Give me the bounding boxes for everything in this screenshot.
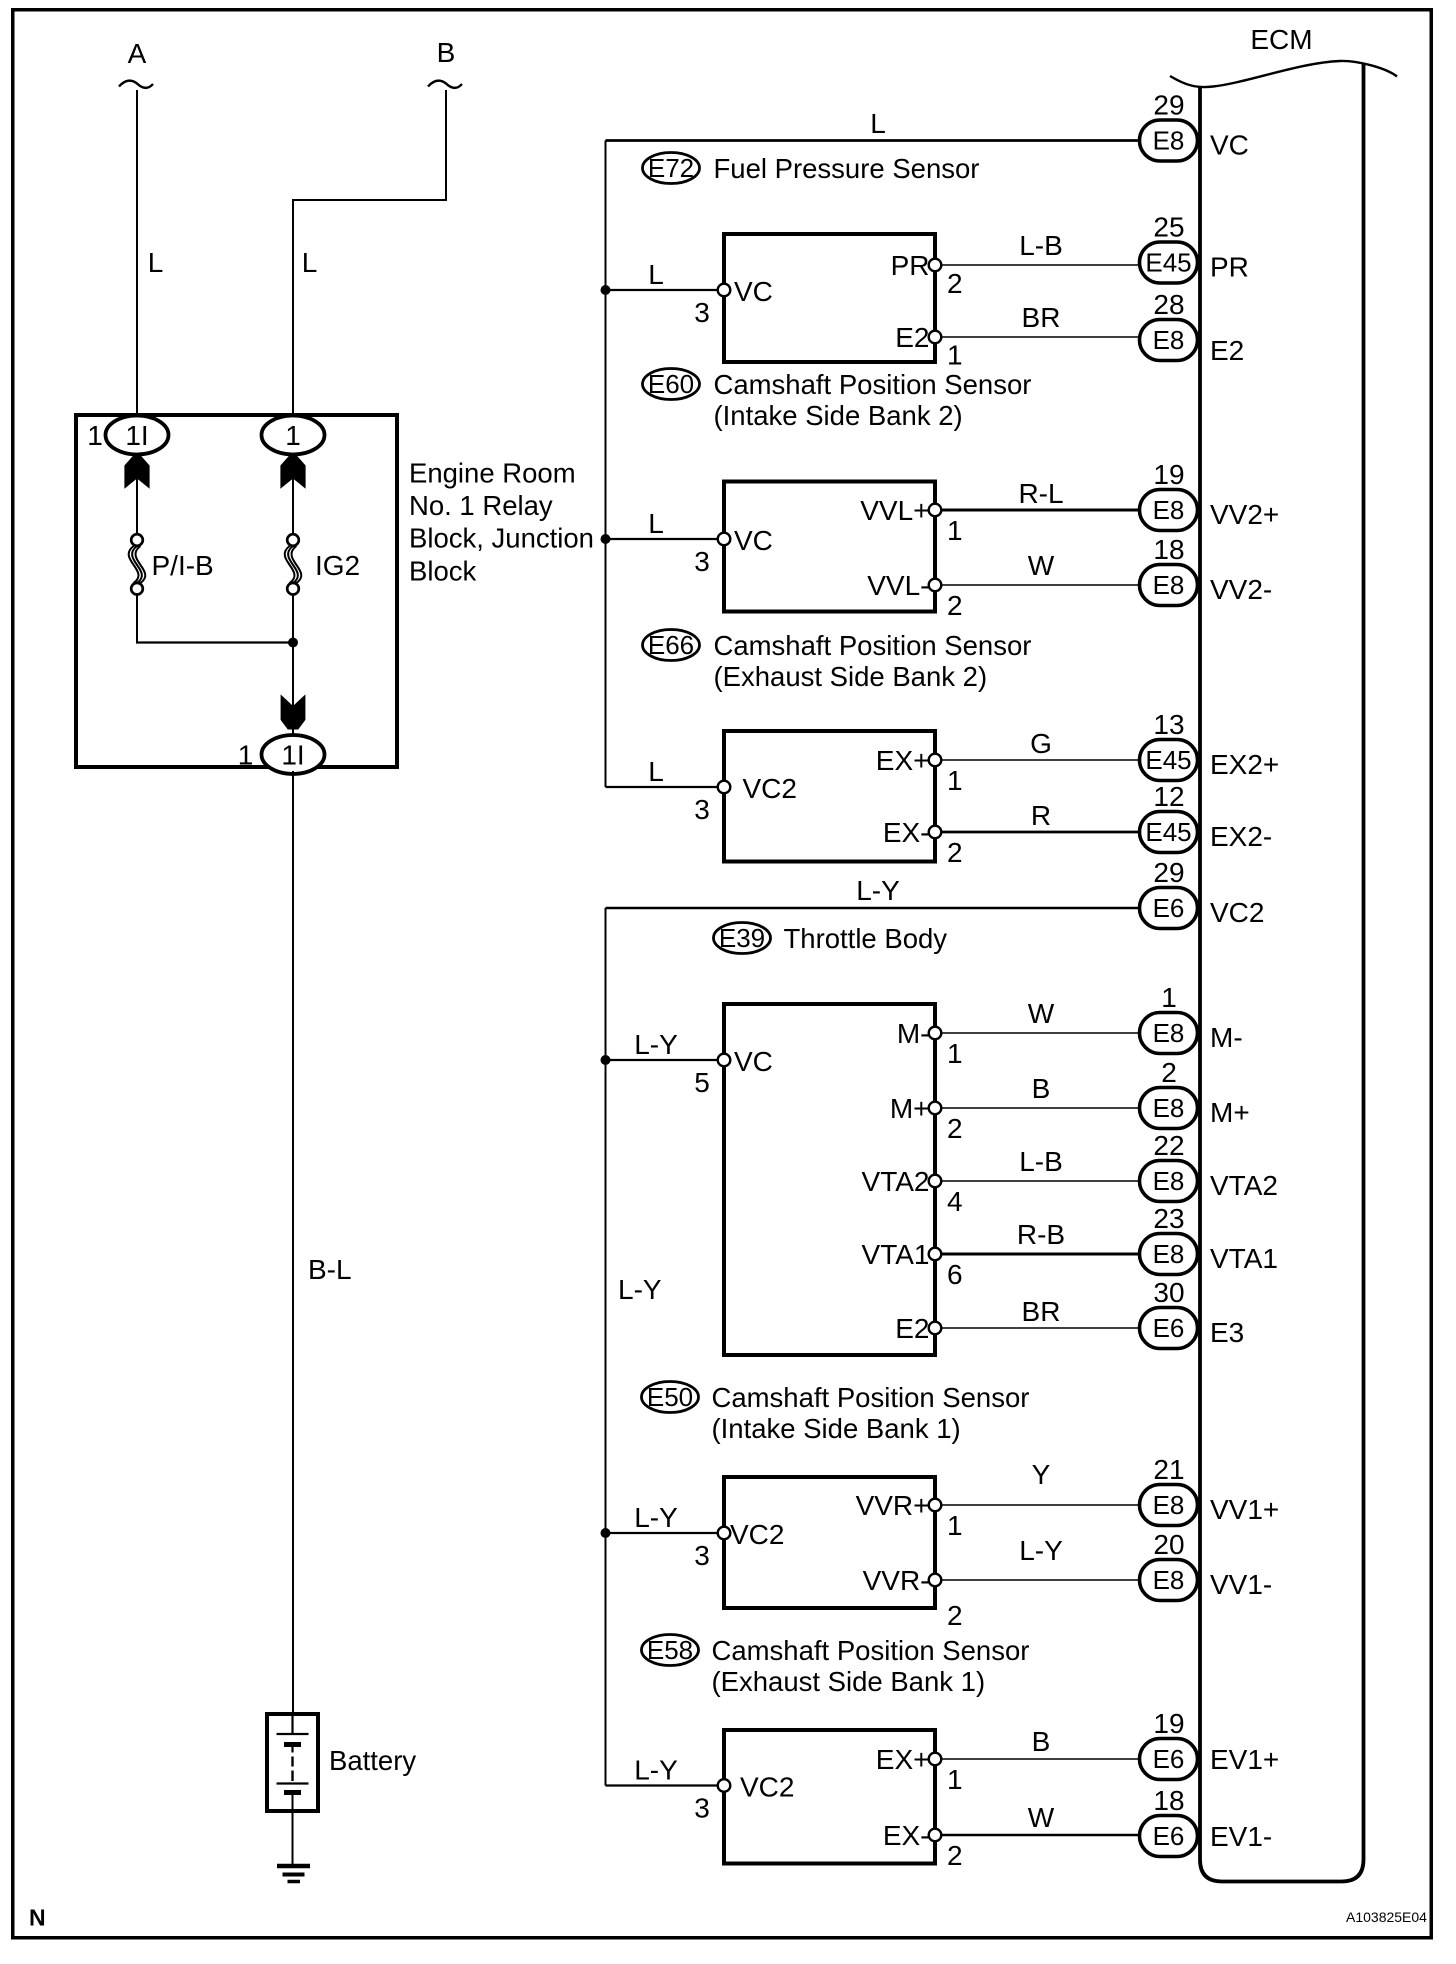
svg-text:E2: E2 [895, 1313, 929, 1344]
svg-text:3: 3 [694, 1792, 710, 1823]
svg-text:1: 1 [238, 739, 254, 770]
svg-text:EV1+: EV1+ [1210, 1744, 1279, 1775]
svg-text:EX+: EX+ [876, 1744, 930, 1775]
svg-text:W: W [1028, 550, 1055, 581]
svg-text:Block: Block [409, 555, 476, 586]
svg-text:PR: PR [891, 250, 930, 281]
svg-text:L-Y: L-Y [618, 1274, 662, 1305]
svg-text:5: 5 [694, 1067, 710, 1098]
svg-text:M+: M+ [1210, 1097, 1250, 1128]
svg-text:18: 18 [1153, 534, 1184, 565]
svg-text:L-Y: L-Y [634, 1502, 678, 1533]
svg-text:VC2: VC2 [730, 1519, 784, 1550]
svg-text:No. 1 Relay: No. 1 Relay [409, 490, 553, 521]
svg-text:E60: E60 [648, 369, 694, 399]
svg-text:E6: E6 [1153, 1744, 1185, 1774]
svg-text:Camshaft Position Sensor: Camshaft Position Sensor [714, 630, 1032, 661]
svg-text:E8: E8 [1153, 126, 1185, 156]
svg-text:25: 25 [1153, 211, 1184, 242]
svg-text:2: 2 [1161, 1057, 1177, 1088]
svg-text:A103825E04: A103825E04 [1346, 1909, 1427, 1925]
svg-text:EX-: EX- [883, 817, 930, 848]
svg-text:VVL-: VVL- [867, 570, 929, 601]
svg-text:(Exhaust Side Bank 1): (Exhaust Side Bank 1) [712, 1666, 986, 1697]
svg-text:E45: E45 [1145, 745, 1191, 775]
svg-text:L-B: L-B [1019, 1146, 1063, 1177]
svg-text:6: 6 [947, 1259, 963, 1290]
svg-text:E6: E6 [1153, 1821, 1185, 1851]
svg-text:B: B [437, 37, 456, 68]
svg-text:23: 23 [1153, 1203, 1184, 1234]
svg-text:L-B: L-B [1019, 230, 1063, 261]
svg-text:E8: E8 [1153, 570, 1185, 600]
svg-text:22: 22 [1153, 1130, 1184, 1161]
svg-text:VTA1: VTA1 [1210, 1243, 1278, 1274]
svg-text:2: 2 [947, 590, 963, 621]
svg-text:VC2: VC2 [740, 1771, 794, 1802]
svg-text:A: A [128, 38, 147, 69]
svg-text:1: 1 [947, 1764, 963, 1795]
svg-text:VV2+: VV2+ [1210, 499, 1279, 530]
svg-text:2: 2 [947, 1113, 963, 1144]
svg-text:E2: E2 [1210, 335, 1244, 366]
svg-text:L: L [648, 508, 664, 539]
svg-text:E8: E8 [1153, 325, 1185, 355]
svg-text:VTA2: VTA2 [1210, 1170, 1278, 1201]
svg-text:B-L: B-L [308, 1254, 352, 1285]
svg-text:1: 1 [947, 515, 963, 546]
svg-text:30: 30 [1153, 1277, 1184, 1308]
svg-text:VC: VC [734, 1046, 773, 1077]
svg-text:Camshaft Position Sensor: Camshaft Position Sensor [712, 1382, 1030, 1413]
svg-text:4: 4 [947, 1186, 963, 1217]
svg-text:VC: VC [734, 525, 773, 556]
svg-text:E8: E8 [1153, 1093, 1185, 1123]
svg-text:P/I-B: P/I-B [152, 550, 214, 581]
svg-text:EV1-: EV1- [1210, 1821, 1272, 1852]
svg-text:ECM: ECM [1250, 24, 1312, 55]
svg-text:21: 21 [1153, 1454, 1184, 1485]
svg-text:EX+: EX+ [876, 745, 930, 776]
svg-text:1: 1 [285, 420, 301, 451]
svg-text:VVR-: VVR- [863, 1565, 930, 1596]
svg-text:EX2+: EX2+ [1210, 749, 1279, 780]
svg-text:PR: PR [1210, 251, 1249, 282]
svg-text:E50: E50 [647, 1382, 693, 1412]
svg-text:E2: E2 [895, 322, 929, 353]
svg-text:VC2: VC2 [743, 773, 797, 804]
svg-text:29: 29 [1153, 857, 1184, 888]
svg-text:VTA2: VTA2 [862, 1166, 930, 1197]
svg-text:L-Y: L-Y [1019, 1535, 1063, 1566]
svg-text:L-Y: L-Y [634, 1029, 678, 1060]
svg-text:19: 19 [1153, 1708, 1184, 1739]
svg-text:VTA1: VTA1 [862, 1239, 930, 1270]
svg-text:Battery: Battery [329, 1745, 416, 1776]
svg-text:Fuel Pressure Sensor: Fuel Pressure Sensor [714, 153, 980, 184]
svg-text:L-Y: L-Y [634, 1754, 678, 1785]
svg-text:VV1-: VV1- [1210, 1569, 1272, 1600]
svg-text:18: 18 [1153, 1785, 1184, 1816]
svg-text:M-: M- [1210, 1022, 1243, 1053]
svg-text:E72: E72 [648, 153, 694, 183]
svg-text:E8: E8 [1153, 1239, 1185, 1269]
svg-text:Camshaft Position Sensor: Camshaft Position Sensor [714, 369, 1032, 400]
svg-text:EX2-: EX2- [1210, 821, 1272, 852]
svg-text:M+: M+ [890, 1093, 930, 1124]
svg-text:E3: E3 [1210, 1317, 1244, 1348]
svg-text:Block, Junction: Block, Junction [409, 523, 594, 554]
svg-text:VC: VC [734, 276, 773, 307]
svg-text:L: L [648, 259, 664, 290]
svg-text:E39: E39 [719, 923, 765, 953]
svg-text:E6: E6 [1153, 893, 1185, 923]
svg-text:3: 3 [694, 546, 710, 577]
svg-text:1I: 1I [125, 420, 148, 451]
svg-text:19: 19 [1153, 459, 1184, 490]
svg-text:R-L: R-L [1018, 478, 1063, 509]
svg-text:12: 12 [1153, 781, 1184, 812]
svg-text:2: 2 [947, 837, 963, 868]
svg-text:2: 2 [947, 268, 963, 299]
svg-text:L: L [870, 108, 886, 139]
svg-text:VV2-: VV2- [1210, 574, 1272, 605]
svg-text:2: 2 [947, 1600, 963, 1631]
svg-text:L-Y: L-Y [856, 875, 900, 906]
svg-text:BR: BR [1022, 1296, 1061, 1327]
svg-text:EX-: EX- [883, 1820, 930, 1851]
svg-text:Camshaft Position Sensor: Camshaft Position Sensor [712, 1635, 1030, 1666]
svg-text:13: 13 [1153, 709, 1184, 740]
svg-text:1I: 1I [281, 739, 304, 770]
svg-text:VC: VC [1210, 129, 1249, 160]
svg-text:R: R [1031, 800, 1051, 831]
svg-text:E8: E8 [1153, 1018, 1185, 1048]
svg-text:W: W [1028, 1802, 1055, 1833]
svg-text:Y: Y [1032, 1459, 1051, 1490]
svg-text:E8: E8 [1153, 495, 1185, 525]
svg-text:1: 1 [87, 420, 103, 451]
svg-text:2: 2 [947, 1840, 963, 1871]
svg-text:1: 1 [947, 339, 963, 370]
svg-text:1: 1 [947, 765, 963, 796]
svg-text:E45: E45 [1145, 248, 1191, 278]
svg-text:G: G [1030, 728, 1052, 759]
svg-text:B: B [1032, 1073, 1051, 1104]
svg-text:(Intake Side Bank 1): (Intake Side Bank 1) [712, 1413, 961, 1444]
svg-text:1: 1 [947, 1510, 963, 1541]
svg-text:VV1+: VV1+ [1210, 1494, 1279, 1525]
svg-text:E8: E8 [1153, 1565, 1185, 1595]
svg-text:BR: BR [1022, 302, 1061, 333]
svg-text:VVL+: VVL+ [860, 495, 929, 526]
svg-text:1: 1 [947, 1038, 963, 1069]
svg-text:VVR+: VVR+ [856, 1490, 930, 1521]
svg-text:E66: E66 [648, 630, 694, 660]
svg-text:R-B: R-B [1017, 1219, 1065, 1250]
svg-text:3: 3 [694, 297, 710, 328]
svg-text:M-: M- [897, 1018, 930, 1049]
svg-text:N: N [29, 1905, 46, 1931]
svg-text:L: L [148, 247, 164, 278]
svg-text:L: L [648, 756, 664, 787]
svg-text:W: W [1028, 998, 1055, 1029]
svg-text:E58: E58 [647, 1635, 693, 1665]
svg-text:L: L [302, 247, 318, 278]
svg-text:20: 20 [1153, 1529, 1184, 1560]
svg-text:3: 3 [694, 794, 710, 825]
svg-text:E8: E8 [1153, 1166, 1185, 1196]
svg-text:1: 1 [1161, 982, 1177, 1013]
svg-text:(Intake Side Bank 2): (Intake Side Bank 2) [714, 400, 963, 431]
svg-text:(Exhaust Side Bank 2): (Exhaust Side Bank 2) [714, 661, 988, 692]
svg-text:29: 29 [1153, 89, 1184, 120]
svg-text:E45: E45 [1145, 817, 1191, 847]
svg-text:E8: E8 [1153, 1490, 1185, 1520]
svg-text:B: B [1032, 1726, 1051, 1757]
svg-text:Throttle Body: Throttle Body [784, 923, 948, 954]
svg-text:E6: E6 [1153, 1313, 1185, 1343]
svg-text:VC2: VC2 [1210, 897, 1264, 928]
svg-text:IG2: IG2 [315, 550, 360, 581]
svg-text:3: 3 [694, 1540, 710, 1571]
svg-text:Engine Room: Engine Room [409, 457, 576, 488]
svg-text:28: 28 [1153, 289, 1184, 320]
